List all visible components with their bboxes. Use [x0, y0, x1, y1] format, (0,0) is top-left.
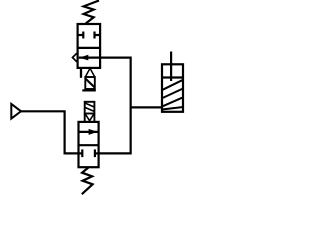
valve V1 exhaust triangle (left) [73, 53, 77, 62]
valve V2 blocked port right (bottom box) [95, 149, 98, 157]
cylinder C1 return spring [163, 80, 182, 109]
cylinder C1 piston [163, 76, 182, 78]
cylinder C1 (single-acting, spring return) body [162, 64, 183, 112]
cylinder C1 piston rod [170, 52, 172, 82]
wire: valve V1 out port right, down, to valve V2 right port [99, 58, 131, 154]
valve V1 body (top 3/2-way valve, two position boxes) [78, 24, 101, 68]
wire: branch to cylinder port [131, 106, 162, 108]
valve V1 blocked port right (top box) [95, 32, 100, 39]
valve V2 blocked port left (bottom box) [79, 149, 82, 157]
muffler M2 (above valve V2) [85, 102, 95, 122]
valve V1 blocked port left (top box) [79, 32, 84, 39]
wire: air source to valve V2 left port [21, 111, 79, 153]
valve V2 return spring (bottom) [82, 168, 93, 195]
muffler M1 (below valve V1) [81, 68, 96, 90]
valve V1 flow path arrow (bottom box, pointing left) [79, 55, 100, 61]
valve V1 return spring (top) [84, 1, 99, 24]
valve V2 flow path arrow (top box, pointing right) [80, 129, 98, 135]
compressed air source triangle [11, 104, 21, 119]
valve V2 body (bottom 3/2-way valve, two position boxes) [79, 122, 99, 167]
